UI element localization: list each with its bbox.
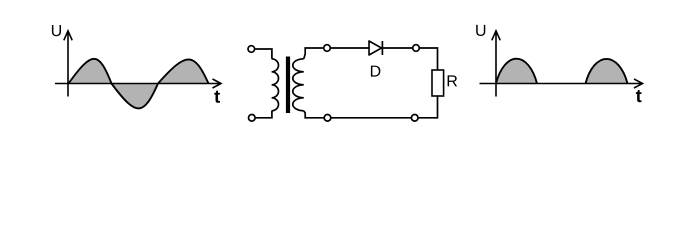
left graph vertical axis U [64,31,72,97]
output hump curve 2 [586,59,628,84]
secondary terminal top [324,45,331,52]
wire primary top lead [255,49,272,59]
wire secondary bottom lead [304,111,324,118]
wire top right corner down to resistor [419,48,437,70]
transformer primary terminal top [248,46,255,53]
label t (left graph) [214,91,220,103]
label R [448,75,458,86]
label U (left graph) [52,25,61,36]
diode D cathode bar [381,41,383,55]
label U (right graph) [476,25,485,36]
resistor R [432,70,444,96]
secondary terminal bottom [324,115,331,122]
wire secondary top lead [304,48,324,59]
diode D [369,41,382,55]
output terminal top [413,45,420,52]
output waveform shaded hump 2 [586,59,628,84]
output hump curve 1 [496,59,537,84]
transformer primary winding [272,59,279,111]
wire primary bottom lead [255,111,272,118]
transformer secondary winding [293,59,304,111]
wire top rail to diode [331,47,369,49]
wire bottom rail to secondary [331,117,412,119]
input sine curve [69,59,209,109]
transformer core [286,57,290,114]
input sine waveform shaded area [69,59,209,109]
right graph vertical axis U [492,31,500,97]
label D [371,66,380,77]
right graph horizontal axis t [480,79,643,88]
label t (right graph) [636,90,642,102]
wire diode to right top terminal [382,47,412,49]
output waveform shaded hump 1 [496,59,537,84]
output terminal bottom [411,115,418,122]
left graph horizontal axis t [55,79,221,88]
wire resistor bottom to bottom rail [418,96,438,118]
transformer primary terminal bottom [249,115,256,122]
